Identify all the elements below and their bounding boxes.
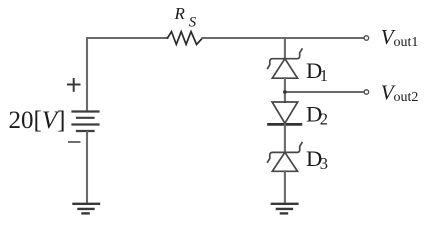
wire top left xyxy=(87,37,168,39)
terminal Vout1 xyxy=(364,36,369,41)
zener diode D3 xyxy=(268,143,302,172)
terminal Vout2 xyxy=(364,90,369,95)
wire D1 to D2 xyxy=(284,78,286,102)
ground left xyxy=(74,204,100,214)
junction node xyxy=(283,90,287,94)
wire D3 to ground xyxy=(284,171,286,202)
wire Vout2 branch xyxy=(285,91,363,93)
ground right xyxy=(272,204,298,214)
battery E xyxy=(73,112,99,132)
minus sign xyxy=(68,141,81,143)
wire battery to ground xyxy=(86,132,88,203)
plus sign xyxy=(67,78,81,92)
wire top right xyxy=(202,37,363,39)
svg-text:20[V]: 20[V] xyxy=(9,107,66,134)
wire diode column top xyxy=(284,38,286,59)
wire D2 to D3 xyxy=(284,124,286,152)
zener diode D1 xyxy=(268,49,302,78)
diode D2 xyxy=(269,102,301,124)
resistor RS xyxy=(168,32,203,45)
wire left vertical xyxy=(86,38,88,111)
